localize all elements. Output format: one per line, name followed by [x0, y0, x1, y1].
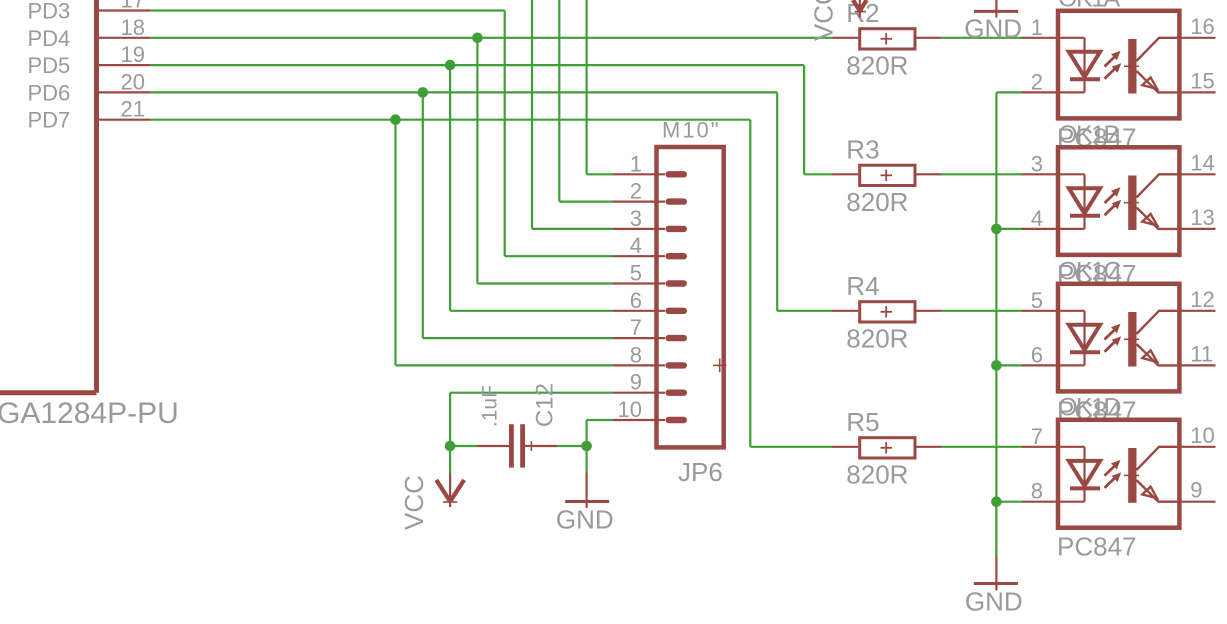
- svg-text:20: 20: [121, 69, 145, 94]
- JP6 pin 8 pad: [666, 362, 688, 368]
- OK1D LED triangle: [1069, 461, 1100, 486]
- wire PD6 down to R4 row: [776, 92, 778, 310]
- OK1C light arrow 2: [1105, 341, 1116, 351]
- OK1D origin cross: [1124, 474, 1139, 476]
- svg-text:7: 7: [630, 315, 642, 340]
- wire rail to C12 left: [450, 445, 477, 447]
- svg-text:820R: 820R: [846, 323, 908, 353]
- wire PD5 to R3: [804, 173, 832, 175]
- OK1C pin 12 stub: [1179, 310, 1215, 312]
- IC pin 19 (PD5) stub: [99, 64, 150, 66]
- svg-text:2: 2: [1031, 69, 1043, 94]
- svg-text:M10": M10": [662, 118, 721, 143]
- wire PD7 to R5: [750, 446, 832, 448]
- svg-text:10: 10: [618, 397, 642, 422]
- svg-text:3: 3: [1031, 151, 1043, 176]
- OK1C emitter: [1137, 344, 1179, 365]
- resistor R2 left lead: [833, 37, 859, 39]
- svg-text:R4: R4: [846, 271, 879, 301]
- junction GND/pin8: [991, 496, 1002, 507]
- OK1D light arrow 2: [1105, 478, 1116, 488]
- JP6 pin 3 stub: [613, 228, 665, 230]
- OK1A internal anode lead: [1058, 37, 1085, 39]
- connector JP6 origin cross: [713, 364, 727, 366]
- svg-text:14: 14: [1190, 150, 1214, 175]
- wire R4 to optocoupler: [941, 310, 1022, 312]
- OK1C internal anode lead: [1058, 310, 1085, 312]
- OK1A pin 1 stub: [1022, 37, 1058, 39]
- JP6 pin 7 pad: [666, 335, 688, 341]
- junction GND rail right: [581, 441, 592, 452]
- svg-text:2: 2: [630, 179, 642, 204]
- JP6 pin 6 pad: [666, 308, 688, 314]
- supply VCC arrow (top, near R2): [859, 0, 861, 18]
- wire PD5 horizontal: [150, 64, 804, 66]
- OK1B pin 14 stub: [1179, 173, 1215, 175]
- wire PD7 down to R5 row: [749, 120, 751, 447]
- IC pin 17 (PD3) stub: [99, 9, 150, 11]
- JP6 pin 1 stub: [613, 173, 665, 175]
- OK1A origin cross: [1124, 65, 1139, 67]
- OK1D pin 8 stub: [1022, 501, 1058, 503]
- svg-text:PD4: PD4: [28, 26, 71, 51]
- optocoupler OK1B box: [1058, 147, 1179, 255]
- svg-text:1: 1: [1031, 15, 1043, 40]
- wire into JP pin 6: [450, 310, 613, 312]
- resistor R4 body: [860, 302, 915, 322]
- optocoupler OK1C box: [1058, 284, 1179, 392]
- resistor R3 origin cross: [881, 174, 893, 176]
- resistor R4 origin cross: [881, 311, 893, 313]
- OK1A pin 16 stub: [1179, 37, 1215, 39]
- JP6 pin 5 stub: [613, 282, 665, 284]
- wire PD7 vertical to JP8: [394, 120, 396, 366]
- svg-text:17: 17: [121, 0, 145, 13]
- resistor R4 right lead: [917, 310, 942, 312]
- JP6 pin 6 stub: [613, 310, 665, 312]
- OK1D internal anode lead: [1058, 446, 1085, 448]
- svg-text:6: 6: [630, 288, 642, 313]
- JP6 pin 3 pad: [666, 226, 688, 232]
- svg-text:3: 3: [630, 206, 642, 231]
- OK1B emitter arrowhead: [1142, 214, 1157, 226]
- svg-text:5: 5: [1031, 288, 1043, 313]
- junction GND/pin6: [991, 360, 1002, 371]
- wire C12 to GND dot: [557, 445, 586, 447]
- wire R3 to optocoupler: [941, 173, 1022, 175]
- OK1B emitter: [1137, 208, 1179, 229]
- OK1C phototransistor base bar: [1128, 312, 1136, 367]
- wire from top to JP1: [585, 0, 587, 174]
- resistor R5 origin cross: [881, 447, 893, 449]
- OK1B origin cross: [1124, 202, 1139, 204]
- resistor R5 left lead: [833, 446, 859, 448]
- svg-text:VCC: VCC: [809, 0, 839, 41]
- wire into JP pin 7: [423, 337, 613, 339]
- wire GND rail to opto pin4: [996, 228, 1022, 230]
- svg-text:820R: 820R: [846, 459, 908, 489]
- svg-text:C12: C12: [532, 383, 559, 427]
- OK1D emitter: [1137, 480, 1179, 502]
- svg-text:PD5: PD5: [28, 53, 71, 78]
- IC body bottom edge: [0, 390, 97, 395]
- svg-text:18: 18: [121, 15, 145, 40]
- svg-text:9: 9: [630, 370, 642, 395]
- resistor R3 body: [860, 165, 915, 185]
- OK1B internal cathode lead: [1058, 228, 1085, 230]
- OK1D collector: [1137, 447, 1179, 470]
- OK1B internal anode lead: [1058, 173, 1085, 175]
- capacitor C12 right lead: [525, 445, 557, 447]
- resistor R2 body: [860, 29, 915, 49]
- IC U? ATMEGA1284P-PU body right edge: [94, 0, 99, 393]
- OK1A phototransistor base bar: [1128, 39, 1136, 94]
- svg-text:13: 13: [1190, 205, 1214, 230]
- OK1A light arrow 1: [1105, 57, 1115, 67]
- svg-text:OK1A: OK1A: [1058, 0, 1121, 12]
- OK1A emitter: [1137, 71, 1179, 92]
- svg-text:JP6: JP6: [678, 457, 723, 487]
- OK1C collector: [1137, 311, 1179, 334]
- OK1A pin 2 stub: [1022, 91, 1058, 93]
- svg-text:820R: 820R: [846, 187, 908, 217]
- svg-text:21: 21: [121, 97, 145, 122]
- JP6 pin 10 pad: [666, 417, 688, 423]
- svg-text:7: 7: [1031, 424, 1043, 449]
- wire into JP pin 3: [532, 228, 613, 230]
- JP6 pin 4 pad: [666, 253, 688, 259]
- GND vertical wire right: [995, 92, 997, 556]
- wire GND rail to opto pin6: [996, 364, 1022, 366]
- svg-text:R5: R5: [846, 407, 879, 437]
- wire into JP pin 5: [477, 282, 613, 284]
- resistor R2 right lead: [917, 37, 942, 39]
- svg-text:GND: GND: [556, 505, 614, 535]
- IC pin 21 (PD7) stub: [99, 119, 150, 121]
- junction PD6/JP7 branch: [418, 87, 429, 98]
- JP6 pin 9 stub: [613, 392, 665, 394]
- OK1D pin 10 stub: [1179, 446, 1215, 448]
- supply GND symbol below C12: [585, 446, 587, 472]
- resistor R5 body: [860, 438, 915, 458]
- supply GND symbol (top): [995, 0, 997, 18]
- wire opto pin8 junction to GND symbol: [995, 502, 997, 557]
- wire PD7 horizontal: [150, 119, 750, 121]
- svg-text:GND: GND: [965, 587, 1023, 617]
- wire PD6 vertical to JP7: [422, 92, 424, 338]
- JP6 pin 5 pad: [666, 280, 688, 286]
- OK1B light arrow 1: [1105, 193, 1115, 203]
- junction PD7/JP8 branch: [390, 114, 401, 125]
- OK1D LED cathode bar: [1070, 486, 1100, 490]
- OK1B phototransistor base bar: [1128, 176, 1136, 231]
- junction GND/pin4: [991, 224, 1002, 235]
- OK1C pin 5 stub: [1022, 310, 1058, 312]
- supply GND symbol (bottom right): [995, 556, 997, 590]
- OK1A pin 15 stub: [1179, 91, 1215, 93]
- wire R5 to optocoupler: [941, 446, 1022, 448]
- resistor R4 left lead: [833, 310, 859, 312]
- supply VCC arrow (bottom left): [449, 446, 451, 474]
- OK1A LED triangle: [1069, 52, 1100, 77]
- svg-text:VCC: VCC: [399, 475, 429, 530]
- wire PD4 horizontal to R2: [150, 37, 832, 39]
- JP6 pin 10 stub: [613, 419, 665, 421]
- capacitor C12 left plate: [509, 424, 514, 467]
- svg-text:10: 10: [1190, 423, 1214, 448]
- svg-text:PD3: PD3: [28, 0, 71, 24]
- OK1C origin cross: [1124, 338, 1139, 340]
- svg-text:OK1C: OK1C: [1058, 257, 1122, 285]
- svg-text:R3: R3: [846, 135, 879, 165]
- OK1B LED cathode bar: [1070, 214, 1100, 218]
- wire PD6 to R4: [777, 310, 832, 312]
- OK1A LED cathode bar: [1070, 77, 1100, 81]
- OK1B light arrow 2: [1105, 205, 1116, 215]
- OK1D emitter arrowhead: [1142, 487, 1157, 499]
- OK1D pin 9 stub: [1179, 501, 1215, 503]
- OK1A internal cathode lead: [1058, 91, 1085, 93]
- JP6 pin 2 stub: [613, 201, 665, 203]
- JP6 pin 9 pad: [666, 390, 688, 396]
- svg-text:GND: GND: [964, 14, 1022, 44]
- wire from top to JP3: [531, 0, 533, 229]
- svg-text:PC847: PC847: [1057, 532, 1137, 562]
- svg-text:OK1B: OK1B: [1058, 121, 1120, 149]
- svg-text:4: 4: [1031, 206, 1043, 231]
- resistor R3 right lead: [917, 173, 942, 175]
- OK1B pin 4 stub: [1022, 228, 1058, 230]
- connector JP6 body: [657, 147, 724, 447]
- wire into JP pin 8: [396, 364, 614, 366]
- svg-text:15: 15: [1190, 68, 1214, 93]
- wire PD3 vertical to JP4: [504, 11, 506, 257]
- svg-text:PD7: PD7: [28, 108, 71, 133]
- OK1C LED triangle: [1069, 325, 1100, 350]
- wire JP pin9 to VCC rail: [450, 392, 613, 394]
- JP6 pin 8 stub: [613, 364, 665, 366]
- OK1C pin 6 stub: [1022, 364, 1058, 366]
- wire into JP pin 1: [587, 173, 613, 175]
- svg-text:12: 12: [1190, 287, 1214, 312]
- JP6 pin 4 stub: [613, 255, 665, 257]
- svg-text:.1uF: .1uF: [479, 385, 502, 427]
- wire JP pin10 to GND: [587, 419, 613, 421]
- capacitor C12 left lead: [477, 445, 509, 447]
- OK1D internal cathode lead: [1058, 501, 1085, 503]
- OK1A collector: [1137, 38, 1179, 61]
- wire PD5 down to R3 row: [803, 65, 805, 174]
- svg-text:8: 8: [630, 342, 642, 367]
- wire PD4 vertical to JP5: [476, 38, 478, 284]
- svg-text:16: 16: [1190, 14, 1214, 39]
- wire from top to JP2: [558, 0, 560, 202]
- svg-text:19: 19: [121, 42, 145, 67]
- optocoupler OK1D box: [1058, 420, 1179, 528]
- OK1B pin 3 stub: [1022, 173, 1058, 175]
- junction PD4/JP5 branch: [472, 33, 483, 44]
- OK1B LED triangle: [1069, 188, 1100, 213]
- JP6 pin 1 pad: [666, 171, 688, 177]
- wire opto pin2 to GND rail: [996, 91, 1022, 93]
- svg-text:820R: 820R: [846, 50, 908, 80]
- resistor R3 left lead: [833, 173, 859, 175]
- capacitor C12 origin cross: [526, 445, 536, 447]
- wire PD6 horizontal: [150, 91, 777, 93]
- OK1C LED cathode bar: [1070, 350, 1100, 354]
- capacitor C12 right plate: [520, 424, 525, 467]
- IC pin 20 (PD6) stub: [99, 91, 150, 93]
- svg-text:4: 4: [630, 233, 642, 258]
- OK1D phototransistor base bar: [1128, 448, 1136, 503]
- svg-text:PD6: PD6: [28, 80, 71, 105]
- OK1D light arrow 1: [1105, 466, 1115, 476]
- wire R2 to optocoupler: [941, 37, 1022, 39]
- wire PD3 horizontal: [150, 9, 504, 11]
- OK1C light arrow 1: [1105, 330, 1115, 340]
- OK1C emitter arrowhead: [1142, 350, 1157, 362]
- wire into JP pin 4: [505, 255, 613, 257]
- OK1D pin 7 stub: [1022, 446, 1058, 448]
- JP6 pin 2 pad: [666, 198, 688, 204]
- OK1A emitter arrowhead: [1142, 77, 1157, 89]
- OK1A light arrow 2: [1105, 68, 1116, 78]
- JP6 pin 7 stub: [613, 337, 665, 339]
- resistor R2 origin cross: [881, 38, 893, 40]
- svg-text:GA1284P-PU: GA1284P-PU: [0, 397, 179, 430]
- OK1C internal cathode lead: [1058, 364, 1085, 366]
- svg-text:OK1D: OK1D: [1058, 393, 1121, 421]
- junction PD5/JP6 branch: [445, 60, 456, 71]
- svg-text:8: 8: [1031, 479, 1043, 504]
- IC pin 18 (PD4) stub: [99, 37, 150, 39]
- optocoupler OK1A box: [1058, 11, 1179, 119]
- svg-text:5: 5: [630, 261, 642, 286]
- svg-text:9: 9: [1190, 478, 1202, 503]
- OK1B pin 13 stub: [1179, 228, 1215, 230]
- svg-text:11: 11: [1190, 341, 1213, 366]
- wire GND rail to opto pin8: [996, 501, 1022, 503]
- OK1C pin 11 stub: [1179, 364, 1215, 366]
- wire PD5 vertical to JP pin6: [449, 65, 451, 311]
- resistor R5 right lead: [917, 446, 942, 448]
- junction VCC rail left: [445, 441, 456, 452]
- svg-text:6: 6: [1031, 342, 1043, 367]
- OK1B collector: [1137, 174, 1179, 197]
- wire into JP pin 2: [559, 201, 613, 203]
- svg-text:1: 1: [630, 151, 642, 176]
